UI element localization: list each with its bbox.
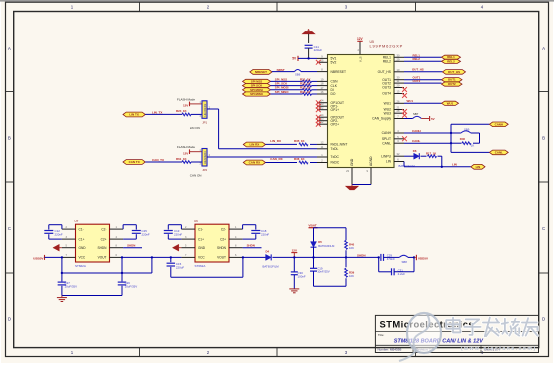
title block logo text STMicroelectronics <box>380 318 475 329</box>
svg-text:LIN: LIN <box>476 165 481 169</box>
border column tick dividers <box>140 2 416 356</box>
svg-text:OUT_HS: OUT_HS <box>412 68 424 72</box>
svg-text:TxDL: TxDL <box>331 147 339 151</box>
svg-text:NRESET: NRESET <box>255 70 267 74</box>
border row letters <box>8 46 545 322</box>
wire CANL flag run <box>451 151 489 153</box>
svg-text:LIN TX: LIN TX <box>129 113 139 117</box>
flag LIN RX <box>243 142 265 147</box>
wire 5V to U5 pin 5V1 <box>298 57 317 59</box>
wire riser x152 <box>151 256 153 273</box>
title block Title field <box>378 333 385 337</box>
no-connect X OUT4 <box>402 93 407 98</box>
wire rail to divider <box>314 256 347 258</box>
wire mid rail <box>62 272 152 274</box>
svg-text:CAN_RX: CAN_RX <box>270 157 282 161</box>
svg-text:OUT2: OUT2 <box>382 81 391 85</box>
svg-text:FLASH Mode: FLASH Mode <box>177 145 195 149</box>
capacitor C15 220uF <box>167 262 185 277</box>
svg-text:JP1: JP1 <box>202 121 207 125</box>
net label LIN <box>452 162 457 166</box>
svg-text:A: A <box>542 46 545 51</box>
svg-text:DO: DO <box>331 92 336 96</box>
svg-text:220nF: 220nF <box>261 233 269 237</box>
svg-text:C1-: C1- <box>198 227 203 231</box>
svg-text:R36_1K: R36_1K <box>294 157 306 161</box>
wire JP1 pin2 right and down to TxDL <box>207 109 317 149</box>
svg-text:CANH: CANH <box>412 129 421 133</box>
ground arrow U7 <box>53 244 62 251</box>
wire REL1 <box>404 56 442 58</box>
wire NRESET to SB6 <box>272 71 295 73</box>
svg-text:WU1: WU1 <box>407 99 414 103</box>
svg-text:OUT3: OUT3 <box>382 86 391 90</box>
svg-text:JP2: JP2 <box>202 168 207 172</box>
svg-text:V_S: V_S <box>359 57 363 63</box>
svg-text:D: D <box>8 317 11 322</box>
svg-text:LIN RX: LIN RX <box>249 143 259 147</box>
svg-text:5V2: 5V2 <box>331 61 337 65</box>
junction R17-LIN <box>441 166 443 168</box>
net label OUT2 <box>413 79 421 83</box>
svg-text:VOUT: VOUT <box>98 256 107 260</box>
U5 value label L99PM62GXP <box>370 44 404 49</box>
wire 12V junction to VBAT branch <box>294 256 313 258</box>
svg-text:10nF/25V: 10nF/25V <box>317 270 330 274</box>
flag CAN RX <box>243 160 265 165</box>
net label SPI_MOSI <box>275 86 289 90</box>
svg-text:220nF: 220nF <box>142 233 150 237</box>
svg-text:WU1: WU1 <box>384 102 391 106</box>
wire R24 to JP1 pin3 <box>191 113 202 115</box>
net label CAN_TX <box>152 158 164 162</box>
svg-text:12V: 12V <box>183 104 188 108</box>
svg-text:SB9: SB9 <box>464 127 470 131</box>
ground arrow U6 <box>172 244 181 251</box>
wire JP2 pin2 to U5 TxDC <box>207 156 317 158</box>
jumper SB9 <box>451 127 480 133</box>
svg-text:220nF: 220nF <box>174 233 182 237</box>
svg-text:5V: 5V <box>431 117 435 121</box>
flag SPI_NSS <box>243 79 271 83</box>
flag SPI_SCK <box>243 84 271 88</box>
junction C31 right <box>413 256 415 258</box>
svg-text:GND: GND <box>350 158 354 166</box>
svg-text:220nF: 220nF <box>55 233 63 237</box>
wire riser C26 <box>121 256 123 281</box>
wire U6 VOUT to D4 <box>242 256 266 258</box>
svg-text:1K: 1K <box>471 144 475 148</box>
diode D6 BAT60JFILM <box>399 149 420 168</box>
svg-text:L99PM62GXP: L99PM62GXP <box>370 44 404 49</box>
junction CANL <box>450 142 452 144</box>
svg-text:ST662A: ST662A <box>75 264 86 268</box>
svg-text:R46: R46 <box>460 137 466 141</box>
component U6 body ST662A <box>194 219 229 268</box>
wire OUT1 <box>404 79 442 81</box>
wire bottom return <box>314 285 347 287</box>
svg-text:AGND: AGND <box>369 156 373 166</box>
resistor R34 1K <box>271 90 318 95</box>
svg-text:2.2uF: 2.2uF <box>398 272 406 276</box>
wire 12V to JP2 pin1 <box>190 151 203 153</box>
ground symbol bottom left <box>57 296 67 302</box>
svg-text:USB5V: USB5V <box>33 256 44 260</box>
svg-text:LIN ON: LIN ON <box>190 126 200 130</box>
svg-text:RxDL.NINT: RxDL.NINT <box>331 143 348 147</box>
text LIN ON <box>190 126 200 130</box>
U6 pin stubs and labels <box>181 226 242 260</box>
net label NRST <box>277 68 285 72</box>
diode D5 BAT60JFILM <box>311 228 335 258</box>
svg-text:SB7: SB7 <box>413 112 419 116</box>
U5 bottom AGND pin stub <box>367 156 374 185</box>
svg-text:D: D <box>542 317 545 322</box>
svg-text:FLASH Mode: FLASH Mode <box>177 97 195 101</box>
junction CANH <box>450 132 452 134</box>
no-connect X marks OP pins <box>316 100 321 126</box>
flag OUT1 <box>442 78 463 82</box>
svg-text:B: B <box>542 136 545 141</box>
wire OUT_HS <box>404 71 443 73</box>
text CAN ON <box>190 174 202 178</box>
svg-text:C2-: C2- <box>221 227 226 231</box>
svg-text:ST662A: ST662A <box>195 264 206 268</box>
watermark chinese characters <box>446 318 537 337</box>
svg-text:SHDN: SHDN <box>217 246 227 250</box>
wire riser C27 <box>61 257 63 281</box>
flag REL1 <box>442 55 461 59</box>
watermark logo circle <box>399 313 441 361</box>
svg-text:( w w w . e l e c f a n s . c: ( w w w . e l e c f a n s . c o m ) <box>461 346 536 352</box>
no-connect X WU2 <box>402 109 407 114</box>
svg-text:C2+: C2+ <box>220 237 226 241</box>
svg-text:220uF: 220uF <box>176 266 184 270</box>
wire LIN pin down <box>394 162 404 167</box>
wire D4 to 12V junction <box>243 256 295 258</box>
capacitor C11 220uF <box>305 45 323 59</box>
net label OUT1 <box>413 76 421 80</box>
svg-text:C1-: C1- <box>79 227 84 231</box>
net label REL2 <box>413 57 421 61</box>
junction C31 left <box>378 256 380 258</box>
ground symbol under C30 <box>289 289 299 293</box>
capacitor C27 10uF/35V <box>58 281 77 295</box>
svg-text:R17_1K: R17_1K <box>426 152 436 156</box>
net label CANL <box>412 139 420 143</box>
capacitor C25 220nF (right flying) <box>123 225 150 239</box>
flag CAN TX <box>123 160 145 165</box>
svg-text:R24_1K: R24_1K <box>176 109 188 113</box>
wire CANH to junction <box>404 132 451 134</box>
junction 12V C30 <box>293 256 295 258</box>
U5 bottom GND pin stub <box>346 158 354 184</box>
wire CANL to junction <box>404 142 451 144</box>
svg-text:NBRESET: NBRESET <box>331 70 347 74</box>
junction C27 tap <box>61 256 63 258</box>
net label LIN_RX <box>270 139 281 143</box>
power flag 12V (CAN jumper) <box>183 149 190 155</box>
wire CAN vertical bus <box>450 124 452 152</box>
svg-text:SPLIT: SPLIT <box>382 137 391 141</box>
svg-text:C2+: C2+ <box>101 237 107 241</box>
svg-text:CANL: CANL <box>495 150 503 154</box>
svg-text:CAN_TX: CAN_TX <box>152 158 164 162</box>
net label SHDN U6 <box>243 243 262 247</box>
svg-text:OUT_HS: OUT_HS <box>378 70 392 74</box>
junction divider <box>345 256 347 258</box>
svg-text:OUT2: OUT2 <box>448 82 456 86</box>
wire U5 bottom gnd connect <box>352 184 371 186</box>
page top edge strip <box>0 0 554 2</box>
svg-text:OP1+: OP1+ <box>331 108 340 112</box>
svg-text:U7: U7 <box>75 219 79 223</box>
wire CANH flag run <box>451 123 489 125</box>
wire riser x243 <box>242 257 244 277</box>
connector JP2 <box>199 149 210 173</box>
svg-text:OUT_HS: OUT_HS <box>448 70 460 74</box>
op-amp U5 body L99PM62GXP <box>328 55 395 168</box>
svg-text:12V: 12V <box>183 151 188 155</box>
svg-text:U6: U6 <box>194 219 198 223</box>
svg-text:R35_1K: R35_1K <box>294 139 306 143</box>
no-connect X WU3 <box>402 113 407 118</box>
U5 right pin stubs and labels <box>372 53 404 163</box>
capacitor C19 10nF/25V <box>310 257 330 286</box>
title block number row <box>378 348 501 352</box>
jumper SB7 <box>404 112 421 119</box>
wire 12V to JP1 pin1 <box>190 103 203 105</box>
title block box <box>375 315 538 352</box>
power flag 5V CAN_Supply <box>421 116 434 121</box>
svg-text:BAT60JFILM: BAT60JFILM <box>318 244 335 248</box>
text FLASH Mode (LIN) <box>177 97 195 101</box>
svg-text:12V: 12V <box>357 37 364 41</box>
svg-text:R61_1K: R61_1K <box>176 157 188 161</box>
resistor R24 1K <box>176 109 191 116</box>
svg-text:D6: D6 <box>413 149 417 153</box>
jumper SB6 <box>295 70 302 77</box>
net label SHDN U7 <box>123 243 142 247</box>
svg-text:B: B <box>8 136 11 141</box>
svg-text:RxDC: RxDC <box>331 161 340 165</box>
svg-text:C2-: C2- <box>101 227 106 231</box>
svg-text:REL2: REL2 <box>447 59 455 63</box>
wire OUT2 <box>404 82 442 84</box>
resistor R61 1K <box>176 157 191 164</box>
capacitor C18 220nF (right flying) <box>243 225 270 239</box>
wire R17 branch down <box>441 156 443 167</box>
svg-text:LIN_RX: LIN_RX <box>270 139 281 143</box>
U5 left pin stubs and labels <box>317 54 347 164</box>
svg-text:HEADER3: HEADER3 <box>203 103 207 116</box>
svg-text:SHDN: SHDN <box>97 246 107 250</box>
svg-text:SB6: SB6 <box>295 73 301 77</box>
svg-text:WU3: WU3 <box>384 111 391 115</box>
svg-text:SPI_MISO: SPI_MISO <box>275 90 289 94</box>
capacitor C30 100nF <box>291 257 306 288</box>
svg-text:HEADER3: HEADER3 <box>203 151 207 164</box>
wire CAN TX to R61 <box>145 161 182 163</box>
net label CAN_RX <box>270 157 282 161</box>
border column numbers <box>71 4 484 355</box>
svg-text:LIN: LIN <box>386 160 392 164</box>
svg-text:C1+: C1+ <box>79 237 85 241</box>
resistor R40 10K <box>345 228 355 258</box>
U5 top pin V_S stub <box>358 42 363 63</box>
flag SPI_MOSI <box>243 88 271 92</box>
wire LIN TX to R24 <box>145 113 182 115</box>
net label WU1 <box>407 99 414 103</box>
flag OUT2 <box>442 82 463 86</box>
power VBAT symbol <box>308 223 317 227</box>
svg-text:10uF/35V: 10uF/35V <box>125 285 138 289</box>
wire ground rail <box>62 295 122 297</box>
svg-text:100nF: 100nF <box>298 274 306 278</box>
wire R61 to JP2 pin3 <box>191 161 202 163</box>
svg-text:D4: D4 <box>266 249 270 253</box>
power flag 12V at U5 top <box>357 37 364 41</box>
wire SB6 to U5 NBRESET <box>301 71 317 73</box>
svg-text:SPI MISO: SPI MISO <box>250 92 264 96</box>
wire U7 VOUT rail to U6 VCC <box>123 256 181 258</box>
svg-text:CANL: CANL <box>412 139 420 143</box>
wire bottom rail U6 <box>171 276 243 278</box>
svg-text:CANH: CANH <box>495 122 503 126</box>
border row tick dividers <box>6 92 549 274</box>
flag SPI_MISO <box>243 92 271 96</box>
svg-text:CAN TX: CAN TX <box>129 160 140 164</box>
svg-text:SHDN: SHDN <box>247 243 255 247</box>
net label SPI_MISO <box>275 90 289 94</box>
connector JP1 <box>199 101 210 125</box>
svg-text:VCC: VCC <box>79 256 86 260</box>
svg-text:OUT4: OUT4 <box>382 92 391 96</box>
component U7 body ST662A <box>75 219 110 268</box>
svg-text:C1+: C1+ <box>198 237 204 241</box>
resistor R17 1K <box>421 152 442 158</box>
wire SB9 down <box>479 133 481 143</box>
capacitor C29 470nF <box>381 254 399 261</box>
svg-text:10uF/35V: 10uF/35V <box>65 285 78 289</box>
svg-text:CAN_Supply: CAN_Supply <box>372 117 391 121</box>
flag CANL <box>489 150 508 155</box>
net label SPI_NSS <box>275 77 287 81</box>
svg-text:CANH: CANH <box>382 131 392 135</box>
svg-text:LINPU: LINPU <box>381 154 391 158</box>
svg-text:12V: 12V <box>292 248 297 252</box>
svg-text:Number: MB459B: Number: MB459B <box>378 348 402 352</box>
capacitor C31 2.2uF (loop) <box>379 257 414 275</box>
power flag 5V left of U5 <box>292 56 298 61</box>
net label OUT_HS <box>412 68 424 72</box>
junction D5 rail <box>312 256 314 258</box>
svg-text:220uF: 220uF <box>314 48 323 52</box>
wire VBAT rail right <box>314 227 347 229</box>
flag NRESET <box>250 70 272 75</box>
ground U5 bottom <box>346 185 359 190</box>
power flag 12V mid <box>291 248 297 257</box>
power flag VDD5V <box>414 255 428 260</box>
svg-text:10K: 10K <box>349 246 354 250</box>
wire USB5V to U7 VCC <box>45 256 62 258</box>
svg-text:SHDN: SHDN <box>127 243 135 247</box>
jumper SB8 <box>399 255 414 264</box>
wire SHDN to C29 <box>346 256 379 258</box>
capacitor C26 10uF/35V <box>118 281 137 295</box>
net label SPI_SCK <box>275 82 288 86</box>
svg-text:VBAT: VBAT <box>308 223 316 227</box>
power VBAT symbol top <box>302 29 315 43</box>
resistor R36 1K <box>266 157 318 164</box>
svg-text:VCC: VCC <box>198 256 205 260</box>
resistor R39 10K <box>345 257 355 286</box>
flag OUT_HS <box>443 70 466 75</box>
diode D4 BAT60JFILM <box>263 249 280 268</box>
svg-text:WU1: WU1 <box>447 101 454 105</box>
no-connect X on 5V2 <box>316 60 321 65</box>
svg-text:VOUT: VOUT <box>217 256 226 260</box>
net label SHDN divider <box>357 253 366 257</box>
junction C11 on 5V1 wire <box>307 57 309 59</box>
resistor R33 1K <box>271 86 318 91</box>
power flag 12V (LIN jumper) <box>183 102 190 108</box>
wire riser C15 <box>170 256 172 262</box>
capacitor C12 220nF (left flying) <box>44 225 63 239</box>
text FLASH Mode (CAN) <box>177 145 195 149</box>
power flag USB5V <box>33 255 44 261</box>
resistor R32 1K <box>271 82 318 87</box>
svg-text:R34_1K: R34_1K <box>300 90 312 94</box>
flag LIN TX <box>123 112 145 117</box>
svg-text:OP2+: OP2+ <box>331 122 340 126</box>
svg-text:SB8: SB8 <box>402 260 408 264</box>
no-connect X SPLIT <box>402 136 407 141</box>
svg-text:REL2: REL2 <box>383 60 391 64</box>
svg-text:CAN ON: CAN ON <box>190 174 202 178</box>
capacitor C13 220nF (left flying) <box>164 225 183 239</box>
svg-text:LIN: LIN <box>452 162 457 166</box>
junction mid rail left <box>61 272 63 274</box>
net label LIN_TX <box>152 111 162 115</box>
flag WU1 <box>442 101 459 105</box>
svg-text:10K: 10K <box>349 274 354 278</box>
flag CANH <box>489 122 508 127</box>
svg-text:TxDC: TxDC <box>331 155 340 159</box>
flag LIN <box>471 164 485 169</box>
svg-text:GND: GND <box>198 246 206 250</box>
title text STM board <box>394 339 485 345</box>
svg-text:SHDN: SHDN <box>357 253 366 257</box>
svg-text:A: A <box>8 46 11 51</box>
flag REL2 <box>442 59 461 63</box>
svg-text:CAN RX: CAN RX <box>249 161 261 165</box>
no-connect X OUT3 <box>402 87 407 92</box>
wire WU1 <box>404 102 442 104</box>
svg-text:Title:: Title: <box>378 333 385 337</box>
resistor R35 1K <box>266 139 318 146</box>
resistor R46 1K <box>451 137 480 147</box>
svg-text:GND: GND <box>79 246 87 250</box>
svg-text:BAT60JFILM: BAT60JFILM <box>263 265 280 269</box>
U5 refdes label <box>370 40 374 44</box>
U7 pin stubs and labels <box>62 226 123 260</box>
resistor R31 1K <box>271 77 318 82</box>
svg-text:C: C <box>542 226 545 231</box>
net label REL1 <box>413 53 421 57</box>
net label CANH <box>412 129 421 133</box>
wire REL2 <box>404 60 442 62</box>
